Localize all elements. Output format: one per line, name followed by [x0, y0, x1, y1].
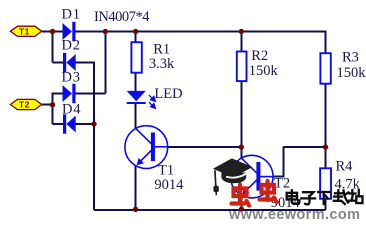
- svg-text:T2: T2: [19, 100, 30, 110]
- svg-text:T1: T1: [19, 26, 30, 36]
- svg-text:150k: 150k: [249, 63, 279, 79]
- svg-text:LED: LED: [154, 86, 182, 102]
- svg-text:9014: 9014: [154, 177, 184, 193]
- svg-text:D3: D3: [62, 69, 81, 85]
- svg-text:R1: R1: [153, 42, 170, 58]
- svg-text:3.3k: 3.3k: [149, 56, 175, 72]
- svg-text:R2: R2: [251, 48, 268, 64]
- svg-text:D4: D4: [62, 102, 81, 118]
- svg-text:D1: D1: [62, 7, 81, 23]
- svg-text:www.eeworm.com: www.eeworm.com: [228, 207, 360, 220]
- svg-text:IN4007*4: IN4007*4: [94, 9, 150, 25]
- svg-text:R3: R3: [342, 50, 359, 66]
- svg-text:T2: T2: [274, 176, 290, 192]
- svg-text:D2: D2: [62, 38, 81, 54]
- svg-text:150k: 150k: [337, 65, 366, 81]
- svg-text:T1: T1: [158, 163, 174, 179]
- svg-text:R4: R4: [336, 159, 354, 175]
